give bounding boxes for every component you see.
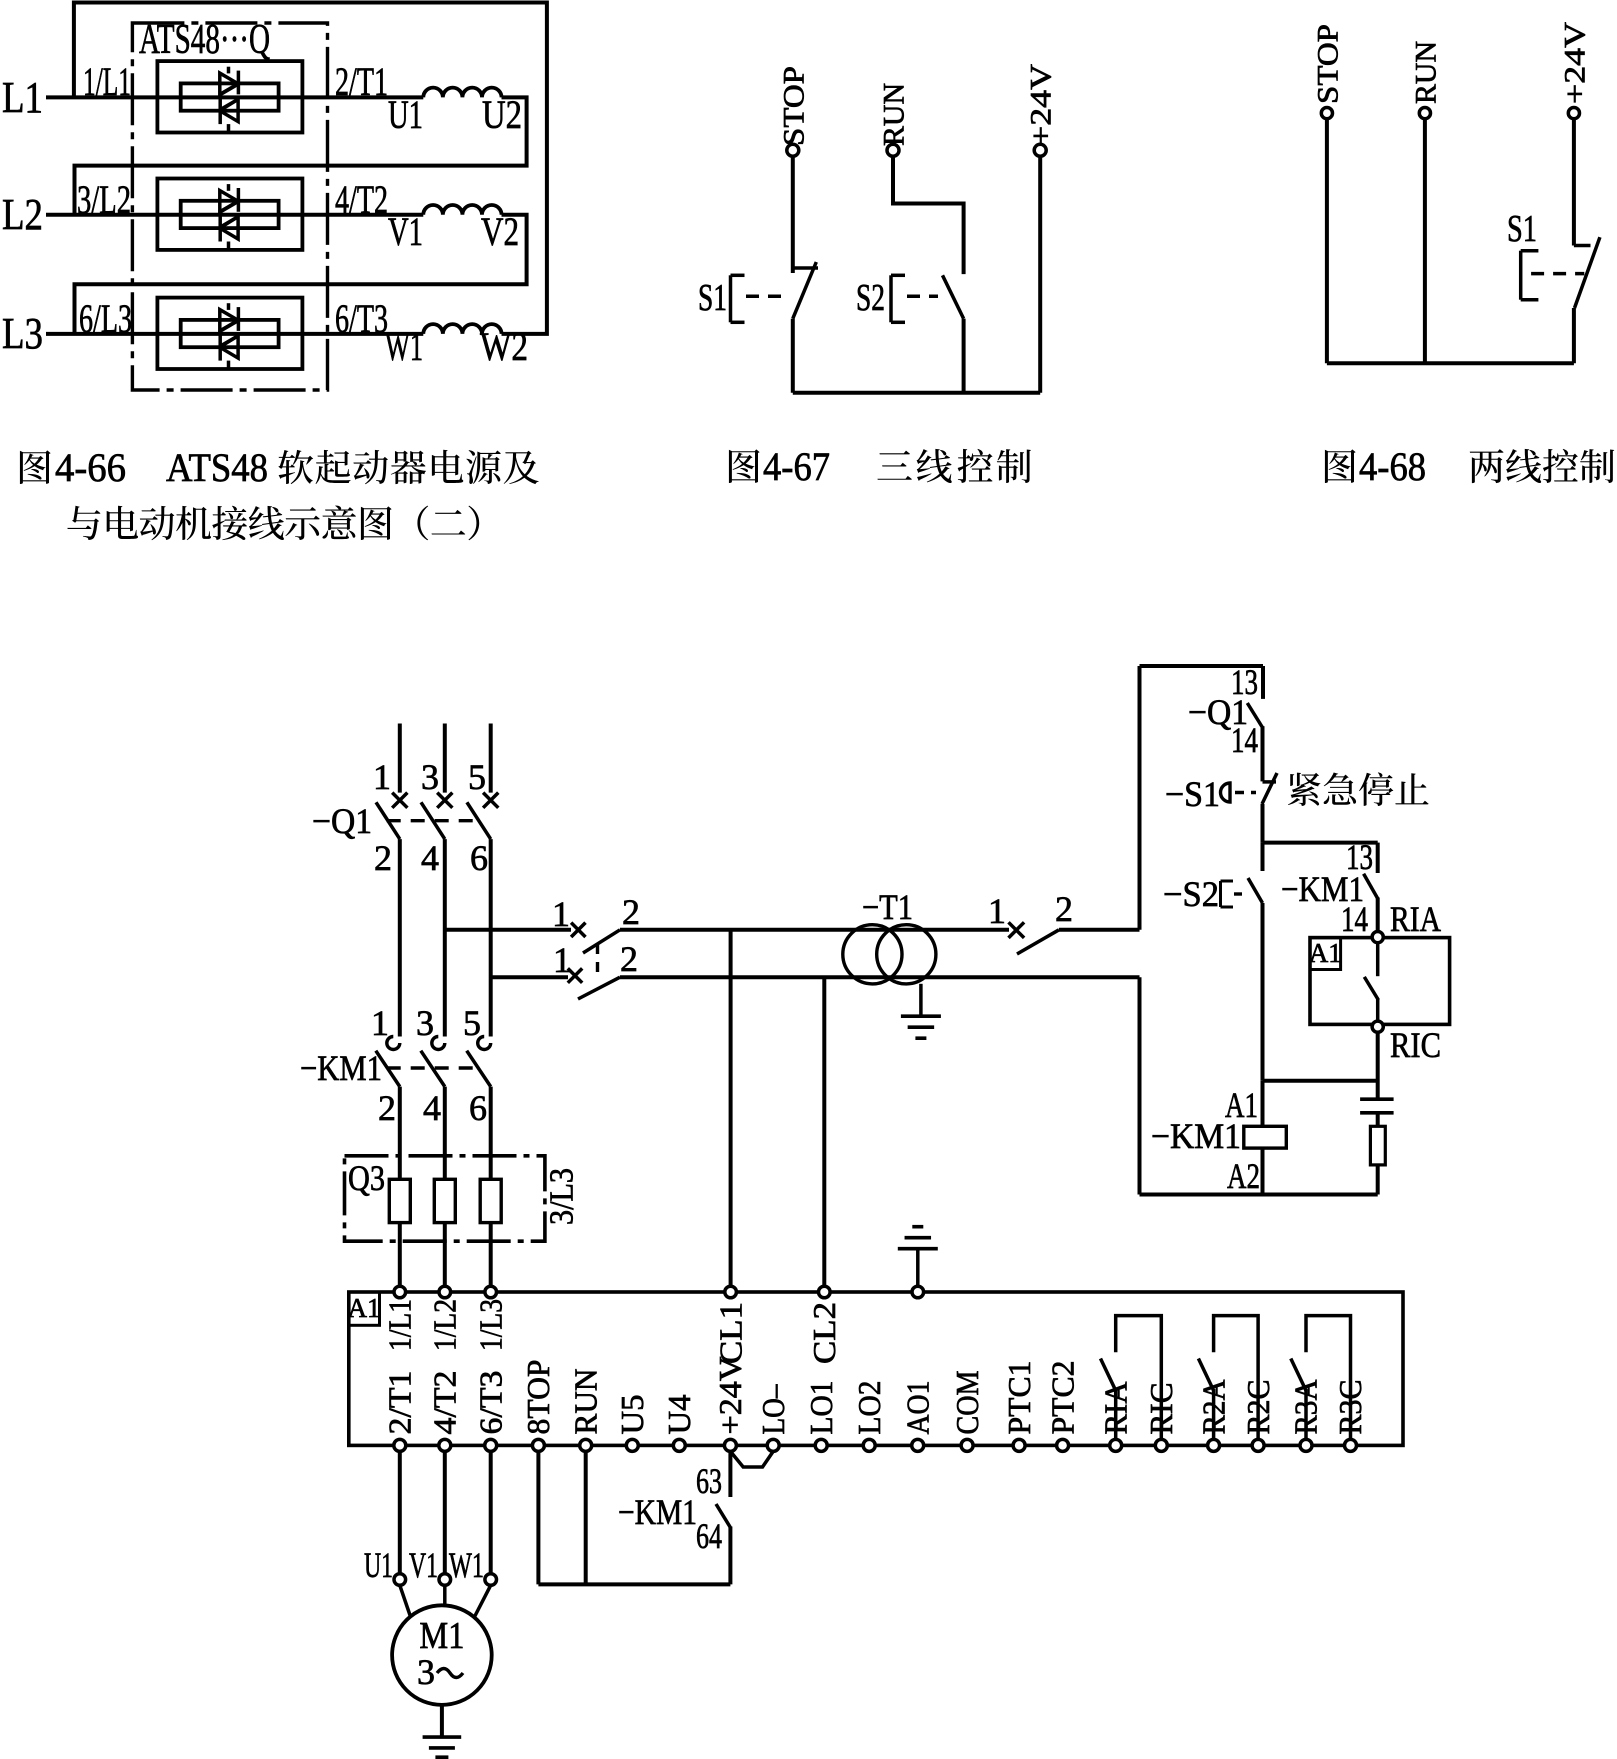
svg-text:6: 6 (469, 1088, 487, 1128)
svg-text:U1: U1 (388, 92, 423, 137)
wire CL1 (from upper control line down to terminal) (729, 930, 733, 1286)
caption figure 4-67 (729, 449, 760, 483)
wire: U1 into motor (400, 1585, 413, 1624)
wire: STOP terminal down (536, 1451, 540, 1584)
svg-text:1: 1 (552, 894, 570, 934)
ground symbol at T1 secondary (919, 984, 923, 1016)
node V1 (439, 1574, 451, 1586)
wire: Q1 to KM1 pole 3 (tap to control) (489, 839, 493, 1036)
jumper +24V to LO- (730, 1451, 773, 1467)
terminal PE/ground (top, unlabeled) (912, 1286, 924, 1298)
wire: control loop left lower riser (1138, 977, 1142, 1194)
svg-text:Q3: Q3 (348, 1158, 385, 1198)
svg-text:4: 4 (423, 1088, 441, 1128)
wire: L2 input line (46, 213, 423, 217)
terminal PTC2 (bottom) (1057, 1439, 1069, 1451)
wire: W1 into motor (471, 1585, 491, 1624)
terminal RIC (bottom) (1155, 1439, 1167, 1451)
terminal LO- (bottom) (767, 1439, 779, 1451)
terminal CL1 (top) (725, 1286, 737, 1298)
svg-text:CL2: CL2 (806, 1302, 842, 1364)
svg-text:S1: S1 (1507, 208, 1537, 250)
svg-text:+24V: +24V (712, 1357, 748, 1435)
svg-text:−KM1: −KM1 (1151, 1116, 1241, 1156)
svg-text:−T1: −T1 (862, 887, 913, 927)
relay box A1 (RIA-RIC) (1310, 938, 1450, 1025)
svg-text:2/T1: 2/T1 (382, 1371, 418, 1435)
svg-text:14: 14 (1231, 720, 1258, 760)
wire CL2 (from lower control line down to terminal) (822, 977, 826, 1286)
svg-text:5: 5 (463, 1003, 481, 1043)
terminal COM (bottom) (961, 1439, 973, 1451)
wire: RUN terminal down (584, 1451, 588, 1584)
terminal CL2 (top) (819, 1286, 831, 1298)
terminal RIA (bottom) (1110, 1439, 1122, 1451)
svg-text:U5: U5 (614, 1395, 650, 1435)
svg-text:6/T3: 6/T3 (472, 1371, 508, 1435)
node U1 (394, 1574, 406, 1586)
ground symbol (motor) (423, 1735, 462, 1739)
svg-text:COM: COM (949, 1371, 985, 1435)
terminal U4 (bottom) (673, 1439, 685, 1451)
svg-text:−KM1: −KM1 (618, 1492, 697, 1532)
terminal +24V (fig 4-67) (1038, 156, 1042, 392)
svg-text:S2: S2 (856, 277, 885, 319)
svg-text:1: 1 (553, 940, 571, 980)
wire: phase-2 return (V2 loop to L3) (75, 215, 527, 334)
terminal +24V (fig 4-68) (1572, 119, 1576, 246)
svg-text:W1: W1 (385, 324, 423, 369)
svg-text:1: 1 (371, 1003, 389, 1043)
svg-text:LO–: LO– (755, 1384, 791, 1435)
relay contact R1 (RIA-RIC) in strip (1116, 1316, 1162, 1439)
terminal 1/L2 (top) (439, 1286, 451, 1298)
svg-text:3: 3 (417, 1652, 435, 1692)
wire: bottom control bus (538, 1582, 730, 1586)
svg-text:−S1: −S1 (1165, 774, 1220, 814)
wire: lower control line to right loop (620, 975, 1140, 979)
pushbutton S1 NC (fig 4-67) (793, 266, 818, 270)
svg-text:2/T1: 2/T1 (335, 59, 388, 104)
wire: junction to coil (1263, 1079, 1378, 1083)
transformer T1 (two overlapping circles) (843, 925, 902, 984)
svg-text:2: 2 (378, 1088, 396, 1128)
svg-text:5: 5 (468, 757, 486, 797)
svg-text:14: 14 (1341, 899, 1368, 939)
svg-text:RIC: RIC (1390, 1025, 1441, 1065)
terminal R3C (bottom) (1345, 1439, 1357, 1451)
terminal 1/L3 (top) (485, 1286, 497, 1298)
terminal RUN (fig 4-68) (1423, 119, 1427, 364)
svg-text:V2: V2 (481, 209, 519, 254)
svg-text:−Q1: −Q1 (312, 801, 372, 841)
svg-text:RUN: RUN (878, 83, 911, 146)
wire: V1 into motor (443, 1585, 447, 1605)
inductor V1-V2 (423, 205, 501, 215)
svg-text:4-67: 4-67 (763, 444, 830, 489)
fuse F1 (389, 1179, 410, 1222)
terminal R3A (bottom) (1300, 1439, 1312, 1451)
switch S1 NC (fig 4-68) (1574, 244, 1591, 248)
svg-text:U1: U1 (364, 1545, 393, 1585)
inductor W1-W2 (423, 324, 501, 334)
svg-text:W2: W2 (480, 324, 528, 369)
wire: T1 to control loop corner (1059, 928, 1140, 932)
svg-text:+24V: +24V (1558, 22, 1591, 104)
relay contact RIA-RIC inside box (1376, 943, 1380, 977)
terminal R2A (bottom) (1208, 1439, 1220, 1451)
wire: 4/T2 to motor V1 (443, 1451, 447, 1573)
svg-text:64: 64 (696, 1516, 722, 1556)
wire: L1 input line (46, 95, 423, 99)
svg-text:1/L1: 1/L1 (382, 1299, 418, 1351)
label emergency stop (CJK) (1288, 773, 1321, 806)
contactor KM1 (3-pole main contacts) (387, 1037, 400, 1050)
switch contact 1-2 after T1 (1009, 922, 1025, 938)
caption figure 4-68 (1325, 449, 1356, 483)
pushbutton S2 NO (1261, 843, 1265, 871)
terminal LO2 (bottom) (863, 1439, 875, 1451)
svg-text:3: 3 (421, 757, 439, 797)
wire: phase-1 return (U2 loop to L2) (75, 97, 527, 214)
svg-text:2: 2 (1055, 889, 1073, 929)
circuit breaker Q1 (3-pole) (392, 793, 407, 808)
svg-text:+24V: +24V (1025, 64, 1058, 146)
terminal STOP (fig 4-67) (791, 156, 795, 273)
terminal +24V (bottom) (724, 1439, 736, 1451)
wire: motor to ground (440, 1705, 444, 1737)
terminal RUN (fig 4-67) (893, 156, 964, 274)
fuse F2 (434, 1179, 455, 1222)
node RIA (1372, 932, 1383, 943)
wire: control tap upper (pole 4 to fuse switch) (445, 928, 571, 932)
svg-text:2: 2 (622, 892, 640, 932)
svg-text:6/T3: 6/T3 (335, 296, 388, 341)
terminal AO1 (bottom) (912, 1439, 924, 1451)
terminal STOP (fig 4-68) (1325, 119, 1329, 364)
wire: 6/T3 to motor W1 (489, 1451, 493, 1573)
wire: control tap lower (pole 6) (491, 975, 568, 979)
wire: upper control line to T1 (620, 928, 1009, 932)
motor M1 3-phase (392, 1605, 492, 1705)
svg-text:−KM1: −KM1 (300, 1048, 382, 1088)
relay contact R3 (R3A-R3C) in strip (1306, 1316, 1351, 1439)
wire: phase-3 return loop (outer box W2 to L1) (74, 3, 547, 334)
caption figure 4-66 line 1 (20, 450, 51, 484)
contactor aux KM1 13-14 (1376, 843, 1380, 873)
breaker aux contact Q1 13-14 (1261, 666, 1265, 699)
enclosure ATS48...Q (dash-dot box) (132, 23, 327, 390)
contactor aux KM1 63-64 (728, 1451, 732, 1497)
svg-text:A2: A2 (1227, 1156, 1260, 1196)
emergency stop S1 (NC mushroom) (1263, 780, 1277, 784)
wire: 2/T1 to motor U1 (398, 1451, 402, 1573)
svg-text:4-66: 4-66 (55, 445, 126, 490)
svg-text:4/T2: 4/T2 (335, 177, 388, 222)
svg-text:S1: S1 (698, 277, 727, 319)
svg-text:2: 2 (374, 838, 392, 878)
svg-text:A1: A1 (348, 1293, 381, 1323)
svg-text:1/L2: 1/L2 (427, 1299, 463, 1351)
relay contact R2 (R2A-R2C) in strip (1214, 1316, 1259, 1439)
svg-text:4: 4 (421, 838, 439, 878)
thyristor module phase 1 (anti-parallel SCR pair) (157, 61, 302, 132)
svg-text:A1: A1 (1309, 938, 1342, 968)
wire: Q1 to KM1 pole 1 (398, 839, 402, 1036)
svg-text:8TOP: 8TOP (520, 1360, 556, 1435)
fuse-switch contact 1-2 lower (568, 968, 582, 982)
inductor U1-U2 (motor winding) (423, 88, 501, 98)
terminal 6/T3 (bottom) (485, 1439, 497, 1451)
wire: control loop bottom (1140, 1193, 1378, 1197)
resistor (1370, 1126, 1385, 1165)
wire bottom bus (fig 4-67) (793, 391, 1040, 395)
wire: Q1 to KM1 pole 2 (tap to control) (443, 839, 447, 1036)
svg-text:1/L3: 1/L3 (472, 1299, 508, 1351)
caption figure 4-66 line 2 (67, 506, 100, 540)
terminal PTC1 (bottom) (1013, 1439, 1025, 1451)
ground symbol above terminal strip (916, 1249, 920, 1287)
svg-text:M1: M1 (419, 1615, 464, 1657)
svg-text:ATS48: ATS48 (166, 445, 268, 490)
fuse block Q3 (dash-dot box) (345, 1156, 545, 1241)
svg-text:6: 6 (470, 838, 488, 878)
svg-text:3/L3: 3/L3 (544, 1168, 581, 1225)
svg-text:STOP: STOP (1311, 24, 1344, 104)
svg-text:RUN: RUN (1409, 41, 1442, 104)
svg-text:L1: L1 (2, 73, 43, 122)
svg-text:V1: V1 (388, 209, 423, 254)
svg-text:63: 63 (696, 1461, 722, 1501)
svg-text:4/T2: 4/T2 (427, 1371, 463, 1435)
wire: control loop left riser (1138, 666, 1142, 930)
svg-text:L3: L3 (2, 309, 43, 358)
battery cell (1360, 1097, 1394, 1101)
fuse F3 (480, 1179, 501, 1222)
svg-text:LO2: LO2 (851, 1381, 887, 1435)
svg-text:V1: V1 (409, 1545, 438, 1585)
svg-text:1/L1: 1/L1 (83, 59, 131, 104)
terminal 8TOP (bottom) (532, 1439, 544, 1451)
thyristor module phase 2 (157, 179, 302, 250)
sub-label box A1 (1310, 938, 1341, 970)
wire: incoming feeder lines (398, 724, 402, 793)
contactor coil KM1 A1-A2 (1261, 1081, 1265, 1127)
svg-text:4-68: 4-68 (1359, 444, 1426, 489)
svg-text:L2: L2 (2, 190, 43, 239)
wire: L3 input line (46, 332, 423, 336)
svg-text:3: 3 (416, 1003, 434, 1043)
svg-text:3/L2: 3/L2 (77, 177, 131, 222)
svg-text:PTC2: PTC2 (1044, 1361, 1080, 1435)
svg-text:RIA: RIA (1390, 899, 1441, 939)
terminal 1/L1 (top) (394, 1286, 406, 1298)
svg-text:CL1: CL1 (712, 1302, 748, 1364)
svg-text:1: 1 (373, 757, 391, 797)
svg-text:U2: U2 (482, 92, 522, 137)
svg-text:LO1: LO1 (803, 1381, 839, 1435)
svg-text:AO1: AO1 (899, 1381, 935, 1435)
terminal RUN (bottom) (580, 1439, 592, 1451)
node W1 (485, 1574, 497, 1586)
wire: RIC down to battery branch (1376, 1032, 1380, 1099)
soft starter terminal strip A1 (349, 1292, 1403, 1445)
svg-text:STOP: STOP (777, 66, 810, 146)
terminal LO1 (bottom) (815, 1439, 827, 1451)
wire bottom bus (fig 4-68) (1327, 361, 1574, 365)
thyristor module phase 3 (157, 298, 302, 369)
svg-text:1: 1 (988, 891, 1006, 931)
svg-text:2: 2 (620, 939, 638, 979)
svg-text:W1: W1 (449, 1545, 484, 1585)
terminal 4/T2 (bottom) (439, 1439, 451, 1451)
svg-text:ATS48···Q: ATS48···Q (139, 17, 270, 63)
svg-text:6/L3: 6/L3 (79, 296, 132, 341)
pushbutton S2 NO (fig 4-67) (943, 275, 964, 318)
svg-text:−S2: −S2 (1163, 874, 1219, 914)
sub-label box A1 (strip) (349, 1292, 380, 1325)
mechanical link (dashed) of 2-pole switch (596, 944, 599, 974)
wire: branch to KM1 aux (1263, 841, 1378, 845)
svg-text:U4: U4 (661, 1395, 697, 1435)
fuse-switch contact 1-2 upper (571, 923, 585, 937)
terminal 2/T1 (bottom) (394, 1439, 406, 1451)
wire: control loop top (1140, 664, 1264, 668)
svg-text:RUN: RUN (567, 1369, 603, 1435)
terminal R2C (bottom) (1252, 1439, 1264, 1451)
node RIC (1372, 1021, 1383, 1032)
terminal U5 (bottom) (626, 1439, 638, 1451)
svg-text:PTC1: PTC1 (1001, 1361, 1037, 1435)
wire: KM1 to terminals through fuses (398, 1087, 402, 1287)
